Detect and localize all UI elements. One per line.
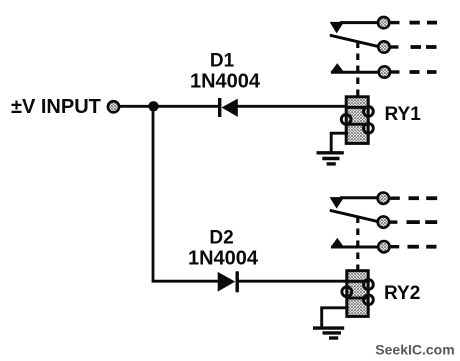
RY1 armature (common pole) (330, 35, 378, 46)
diode D1 triangle (222, 99, 238, 117)
diode D1 cathode bar (218, 98, 221, 117)
RY1 common terminal (378, 41, 389, 52)
RY2 NC contact terminal (378, 193, 389, 204)
ground (RY1) (317, 153, 344, 164)
relay RY2 coil body (347, 271, 368, 317)
wire diode D2 to relay RY2 coil (238, 280, 348, 283)
RY1 coil winding separator upper (346, 106, 368, 109)
RY2 coil loop left (342, 287, 352, 297)
RY1 NC fixed contact triangle (330, 22, 345, 34)
wire RY1 coil to ground (331, 133, 348, 151)
svg-text:RY1: RY1 (385, 104, 422, 125)
RY2 common dashed lead (407, 220, 420, 224)
node A junction dot (148, 101, 158, 111)
RY2 coil loop right upper (364, 280, 374, 290)
wire RY2 coil to ground (322, 308, 349, 327)
svg-text:1N4004: 1N4004 (188, 248, 259, 270)
svg-text:RY2: RY2 (384, 283, 420, 304)
RY2 coil winding separator upper (347, 280, 369, 283)
wire node A down to lower branch (152, 106, 155, 281)
RY2 NO dashed lead (408, 245, 419, 249)
RY2 NO contact terminal (378, 241, 389, 252)
RY1 NO dashed lead (410, 70, 420, 74)
svg-text:D1: D1 (210, 50, 235, 71)
RY1 NC contact terminal (378, 17, 389, 28)
diode D2 cathode bar (236, 271, 239, 292)
RY1 NO contact terminal (379, 66, 390, 77)
RY1 NC dashed lead (410, 21, 420, 25)
RY1 coil loop left (341, 115, 351, 125)
RY1 NC terminal stub (390, 21, 400, 24)
RY1 coil loop right lower (364, 123, 374, 133)
wire input terminal to node A (120, 105, 154, 108)
RY2 NO terminal stub (390, 245, 399, 248)
RY2 mechanical linkage (dashed) (356, 217, 359, 271)
wire node A to diode D1 cathode (154, 105, 220, 108)
RY1 coil winding separator lower (346, 123, 368, 126)
wire lower branch to diode D2 anode (152, 280, 219, 283)
wire diode D1 to relay RY1 coil (237, 105, 347, 108)
svg-text:±V INPUT: ±V INPUT (11, 96, 101, 118)
RY2 coil loop right lower (364, 295, 374, 305)
RY1 NO contact wire (331, 71, 379, 74)
RY1 mechanical linkage (dashed) (356, 42, 359, 97)
RY1 NO fixed contact triangle (331, 63, 345, 72)
RY2 common terminal stub (389, 220, 397, 223)
RY2 NC fixed contact triangle (330, 197, 345, 209)
RY2 NC terminal stub (389, 196, 400, 199)
RY2 armature (common pole) (330, 210, 378, 221)
RY2 common terminal (378, 216, 389, 227)
RY2 NO fixed contact triangle (331, 238, 345, 247)
RY1 NC contact wire (340, 21, 378, 24)
RY2 NC dashed lead (409, 196, 420, 200)
relay RY1 coil body (346, 97, 368, 144)
RY1 common terminal stub (390, 45, 399, 48)
ground (RY2) (313, 328, 344, 338)
RY2 NC contact wire (340, 196, 378, 199)
svg-text:1N4004: 1N4004 (190, 71, 261, 93)
RY2 NO contact wire (331, 246, 379, 249)
svg-text:SeekIC.com: SeekIC.com (375, 342, 454, 358)
RY2 coil winding separator lower (347, 297, 369, 300)
input terminal (108, 101, 119, 112)
RY1 NO terminal stub (390, 70, 399, 73)
diode D2 triangle (218, 272, 236, 292)
RY1 coil loop right upper (364, 107, 374, 117)
RY1 common dashed lead (411, 45, 422, 49)
svg-text:D2: D2 (209, 227, 233, 248)
